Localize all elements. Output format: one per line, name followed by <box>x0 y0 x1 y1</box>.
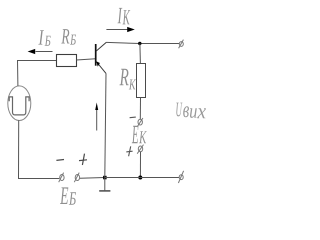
wire EК to rail <box>139 152 141 178</box>
current arrow IБ <box>28 49 53 54</box>
current arrow IК <box>106 27 134 32</box>
label plus EБ <box>79 154 87 165</box>
microphone BM <box>8 86 31 121</box>
label RК <box>120 69 137 90</box>
wire rail left segment <box>18 178 59 180</box>
wire base left segment <box>18 60 57 62</box>
wire left vertical bottom <box>18 120 20 178</box>
wire left vertical top <box>17 60 19 86</box>
node rail right junction <box>138 176 142 180</box>
wire emitter vertical <box>105 73 106 177</box>
label IБ <box>38 30 50 46</box>
resistor RБ <box>57 55 77 67</box>
label EБ <box>60 187 76 204</box>
label plus EК <box>126 146 132 156</box>
wire RК top lead <box>139 44 142 65</box>
label EК <box>132 126 147 143</box>
label minus EБ <box>56 159 64 162</box>
node collector junction <box>138 42 141 45</box>
label minus EК <box>130 116 136 119</box>
terminal output bottom <box>178 171 183 183</box>
wire rail center segment <box>105 177 141 179</box>
label RБ <box>61 29 76 44</box>
resistor RК <box>137 64 146 98</box>
node emitter junction <box>103 176 107 180</box>
wire RК bottom lead <box>139 98 141 120</box>
ground <box>99 178 110 191</box>
wire rail mid segment <box>80 177 105 180</box>
wire collector top rail <box>106 42 179 43</box>
wire base right segment <box>77 59 96 60</box>
terminal battery EК minus <box>137 118 143 127</box>
current arrow emitter <box>95 103 98 131</box>
transistor VT1 (pnp) <box>96 42 107 73</box>
terminal battery EБ plus <box>74 173 79 183</box>
label Uвих <box>176 103 206 119</box>
terminal output top <box>179 40 184 49</box>
wire rail right segment <box>140 177 179 179</box>
terminal battery EБ minus <box>59 173 64 183</box>
label IК <box>118 8 131 25</box>
terminal battery EК plus <box>137 145 143 154</box>
